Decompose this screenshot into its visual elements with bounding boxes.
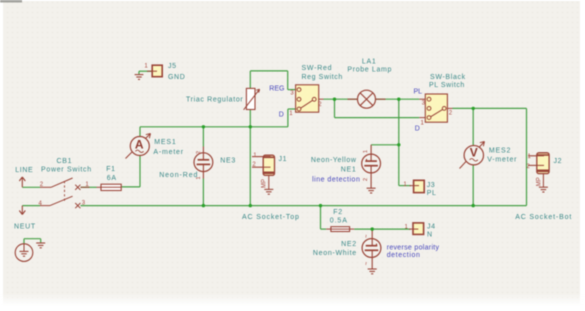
svg-text:Neon-Yellow: Neon-Yellow: [311, 157, 357, 164]
svg-text:D: D: [279, 111, 284, 118]
svg-text:A-meter: A-meter: [153, 149, 184, 156]
svg-text:J2: J2: [554, 158, 563, 165]
svg-text:MP: MP: [262, 179, 268, 188]
svg-text:GND: GND: [168, 74, 185, 81]
svg-text:~: ~: [364, 234, 370, 238]
svg-text:PL: PL: [414, 88, 423, 95]
svg-text:N: N: [427, 231, 433, 238]
svg-text:Power Switch: Power Switch: [41, 167, 92, 174]
svg-text:detection: detection: [387, 252, 421, 259]
svg-text:REG: REG: [269, 85, 284, 92]
svg-text:NE1: NE1: [341, 166, 357, 173]
svg-text:J5: J5: [168, 63, 177, 70]
svg-text:MES2: MES2: [489, 148, 511, 155]
svg-text:NE2: NE2: [341, 241, 357, 248]
svg-text:line detection: line detection: [312, 177, 360, 184]
svg-text:~: ~: [364, 261, 370, 265]
svg-text:J4: J4: [427, 223, 436, 230]
svg-text:0.5A: 0.5A: [330, 218, 348, 225]
svg-text:Probe Lamp: Probe Lamp: [347, 67, 392, 74]
svg-text:SW-Black: SW-Black: [430, 74, 466, 81]
svg-text:NE3: NE3: [220, 158, 236, 165]
svg-text:J3: J3: [427, 182, 436, 189]
svg-text:CB1: CB1: [57, 158, 73, 165]
svg-text:PL: PL: [427, 190, 437, 197]
svg-text:F2: F2: [333, 209, 343, 216]
svg-text:Triac Regulator: Triac Regulator: [186, 96, 243, 103]
svg-text:PL Switch: PL Switch: [429, 82, 465, 89]
svg-text:MES1: MES1: [154, 139, 176, 146]
svg-text:V-meter: V-meter: [487, 157, 517, 164]
svg-text:V: V: [470, 146, 478, 160]
svg-text:6A: 6A: [107, 175, 117, 182]
svg-text:D: D: [415, 125, 420, 132]
svg-text:F1: F1: [106, 166, 116, 173]
svg-text:2: 2: [363, 178, 369, 181]
svg-text:NEUT: NEUT: [14, 223, 36, 230]
svg-text:2: 2: [196, 151, 202, 154]
svg-text:A: A: [135, 138, 144, 152]
svg-text:Neon-Red: Neon-Red: [159, 172, 198, 179]
svg-text:1: 1: [363, 150, 369, 153]
svg-text:AC Socket-Top: AC Socket-Top: [242, 214, 300, 221]
svg-text:reverse polarity: reverse polarity: [387, 245, 440, 252]
svg-text:Neon-White: Neon-White: [313, 250, 357, 257]
svg-text:Reg Switch: Reg Switch: [302, 74, 343, 81]
svg-text:LINE: LINE: [15, 167, 33, 174]
svg-text:AC Socket-Bot: AC Socket-Bot: [515, 214, 572, 221]
svg-text:LA1: LA1: [362, 59, 377, 66]
svg-text:J1: J1: [279, 156, 288, 163]
svg-text:SW-Red: SW-Red: [302, 65, 333, 72]
svg-text:MP: MP: [537, 177, 543, 186]
